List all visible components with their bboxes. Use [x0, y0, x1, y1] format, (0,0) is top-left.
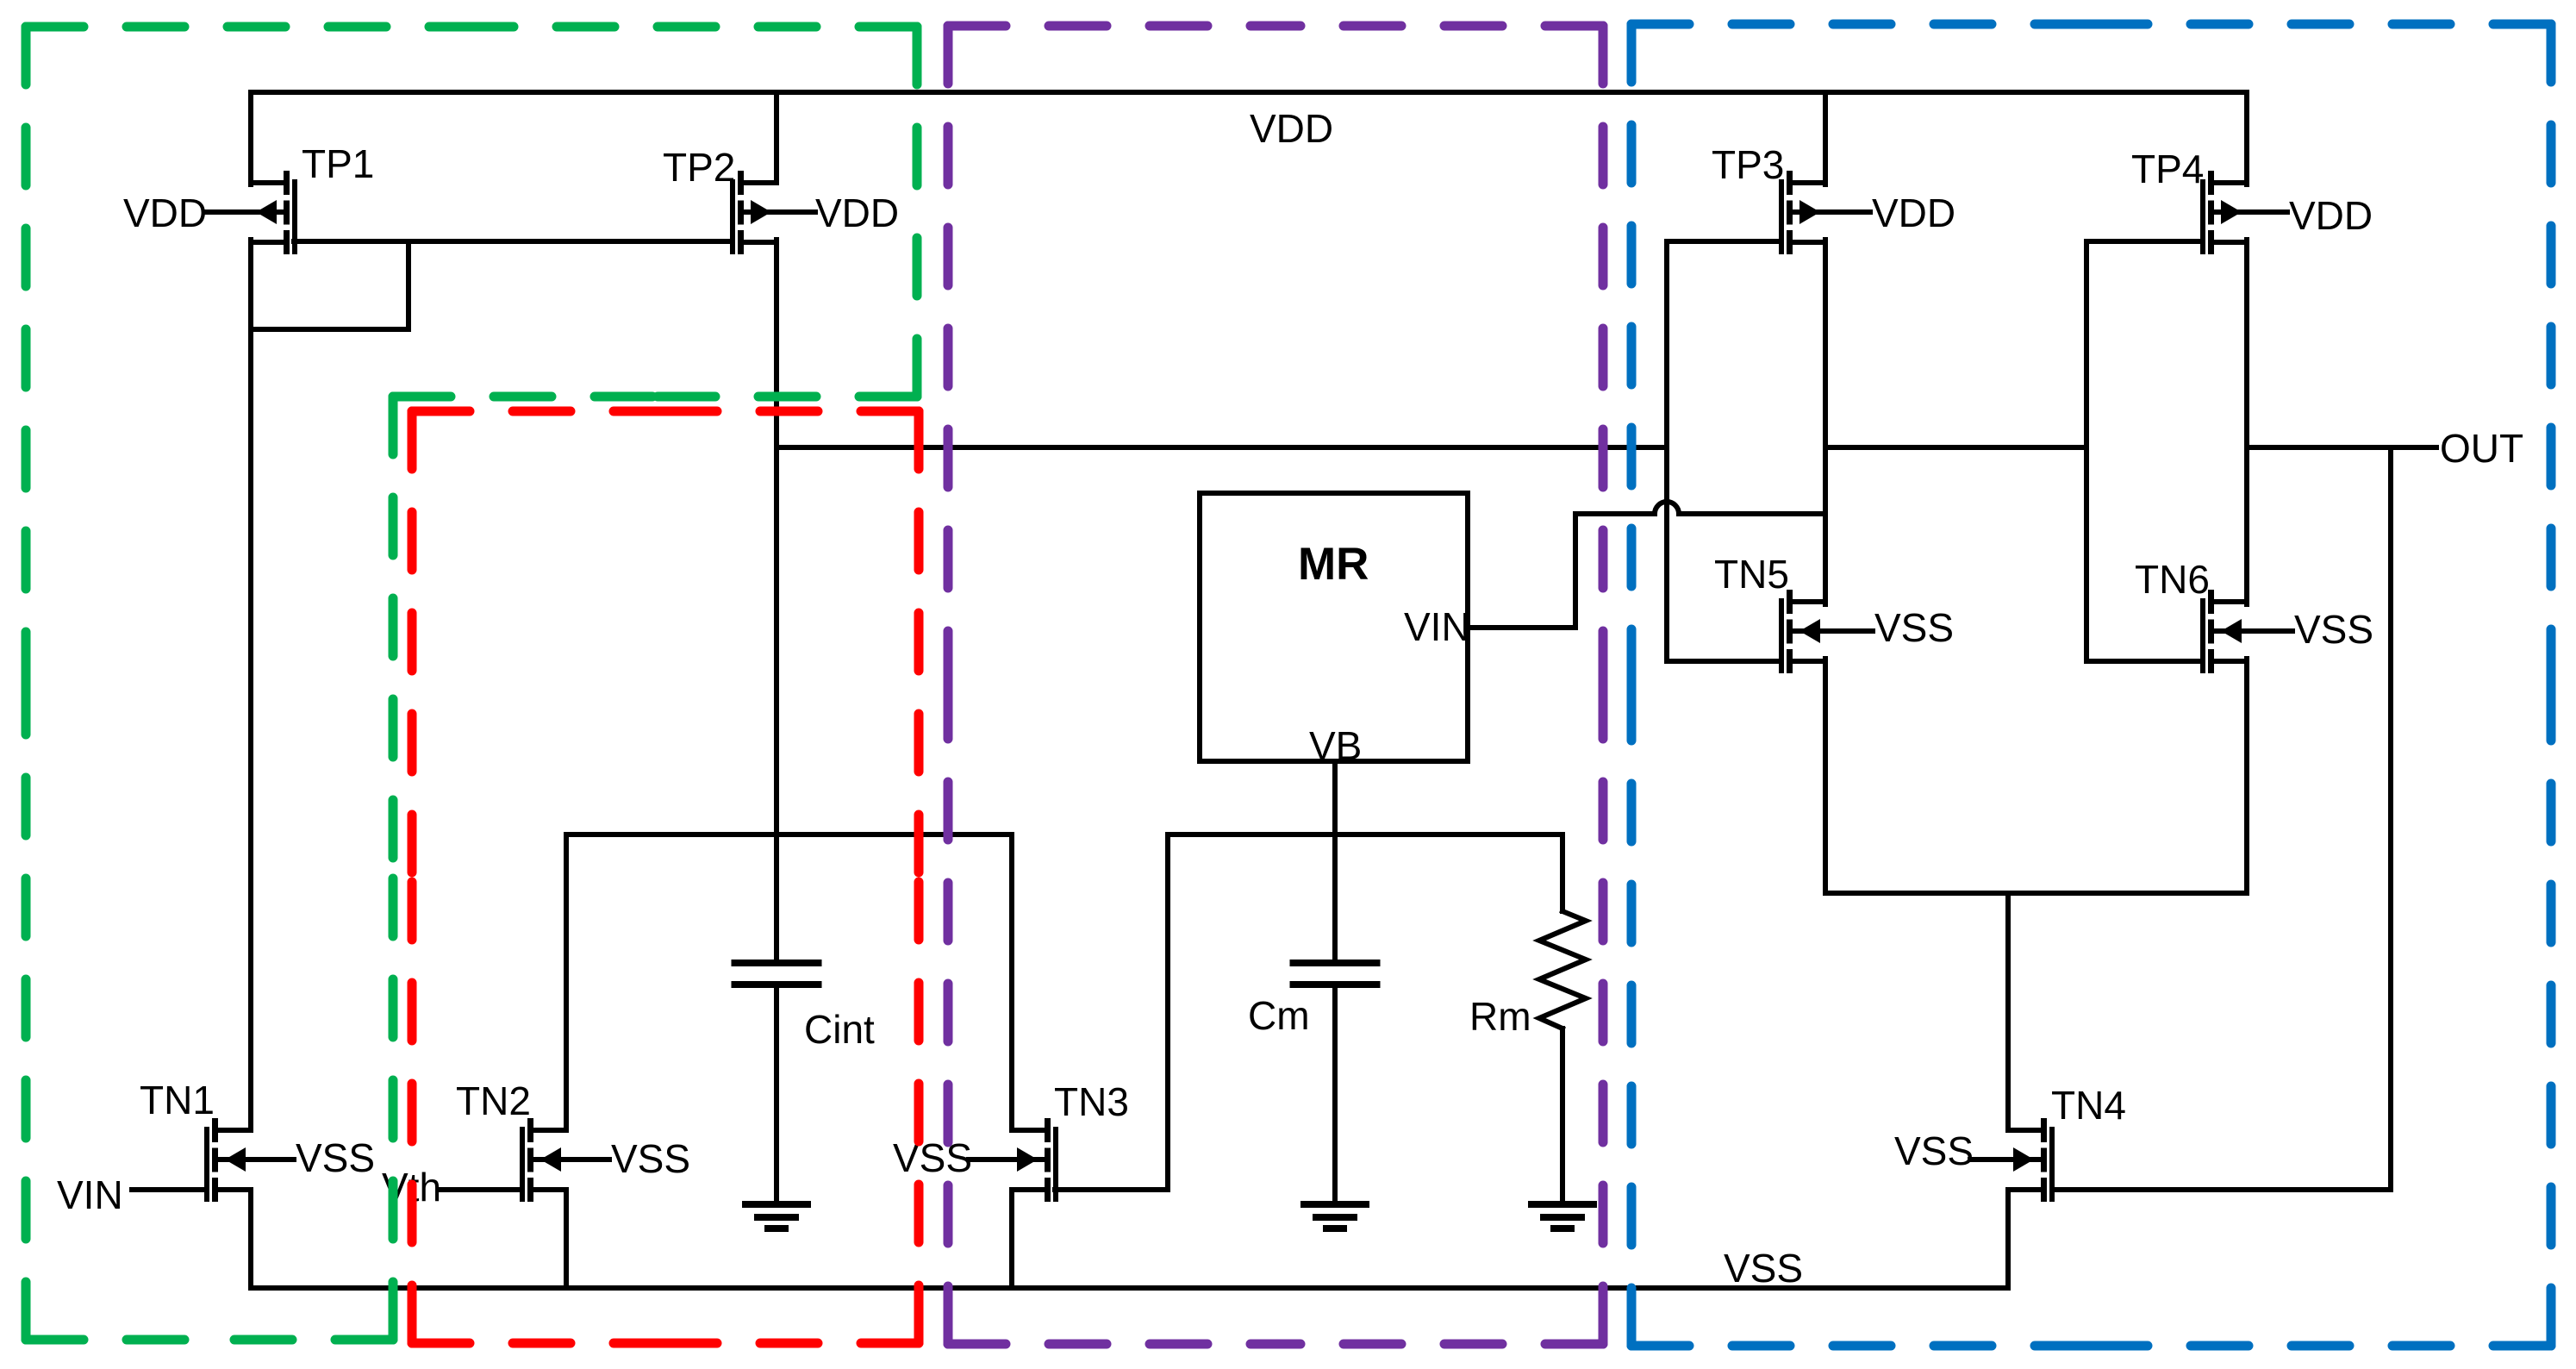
wire Cint to ground: [774, 988, 779, 1204]
svg-text:VSS: VSS: [1724, 1246, 1803, 1291]
wire TP1 diode loop riser: [406, 241, 411, 329]
svg-text:Cm: Cm: [1248, 993, 1310, 1038]
wire TN1 source to VSS rail: [248, 1190, 253, 1288]
wire Rm bottom lead: [1560, 1028, 1565, 1204]
ground under Cint: [742, 1201, 811, 1232]
svg-text:VSS: VSS: [611, 1136, 690, 1181]
wire TP1 bulk to VDD: [204, 209, 284, 215]
blue dashed box (output inverters region): [1631, 24, 2551, 1346]
wire TP1 source to rail: [248, 92, 253, 184]
wire TN5 bulk to VSS: [1793, 628, 1873, 634]
wire TN3 gate riser: [1165, 835, 1170, 1190]
resistor Rm: [1539, 911, 1586, 1028]
transistor TP4 (PMOS): [2200, 171, 2247, 254]
wire MR VIN to inverter1 output (right of hop): [1679, 511, 1825, 516]
wire TN4 bulk to VSS: [1970, 1157, 2041, 1162]
svg-text:VB: VB: [1309, 723, 1362, 768]
transistor TP2 (PMOS): [730, 171, 777, 254]
green dashed box (input stage / current mirror region): [26, 27, 917, 1340]
svg-text:TP2: TP2: [663, 145, 735, 190]
svg-text:VDD: VDD: [2289, 193, 2373, 238]
wire VSS bottom rail: [251, 1285, 2008, 1291]
svg-text:VSS: VSS: [296, 1135, 375, 1180]
wire inverter1 gate tie: [1664, 241, 1669, 661]
wire TP3 source to rail: [1823, 92, 1828, 184]
svg-text:TN6: TN6: [2135, 557, 2210, 602]
capacitor Cint: [732, 960, 822, 988]
wire Vth lead to TN2 gate: [441, 1187, 522, 1192]
red dashed box (integrator region): [412, 411, 919, 1343]
wire TN2 bulk to VSS: [533, 1157, 609, 1162]
transistor TN5 (NMOS): [1779, 590, 1825, 673]
purple dashed box (memristor network region): [948, 26, 1603, 1344]
wire gate rail TP1-TP2: [294, 239, 733, 244]
wire MR VB lead: [1332, 761, 1338, 960]
wire TP2 source to rail: [774, 92, 779, 183]
wire Rm top lead: [1560, 835, 1565, 911]
wire TN3 gate lead: [1055, 1187, 1168, 1192]
transistor TN6 (NMOS): [2200, 590, 2247, 673]
wire TP3-TN5 drain vertical: [1823, 240, 1828, 604]
svg-text:VSS: VSS: [1894, 1128, 1974, 1173]
svg-text:TP1: TP1: [302, 141, 374, 186]
wire TN6 source vertical: [2244, 659, 2249, 893]
wire TN3 bulk to VSS: [969, 1157, 1045, 1162]
transistor TN2 (NMOS): [520, 1118, 566, 1202]
wire TN4 gate lead: [2052, 1187, 2391, 1192]
transistor TN3 (NMOS): [1012, 1118, 1058, 1202]
transistor TN1 (NMOS): [204, 1118, 251, 1202]
wire OUT segment 3 (inverter2 out to OUT): [2247, 445, 2436, 450]
wire TP4-TN6 drain vertical: [2244, 240, 2249, 604]
wire TN6 bulk to VSS: [2214, 628, 2292, 634]
svg-text:TP4: TP4: [2131, 147, 2204, 191]
wire MR VIN riser: [1573, 514, 1578, 628]
wire MR VIN pin lead: [1468, 625, 1575, 630]
wire TN5 gate lead: [1667, 659, 1776, 664]
svg-text:Rm: Rm: [1469, 994, 1531, 1039]
svg-text:TP3: TP3: [1712, 142, 1784, 187]
wire TN4 source to VSS rail: [2005, 1190, 2011, 1288]
wire OUT feedback to TN4 gate: [2388, 447, 2393, 1190]
transistor TP3 (PMOS): [1779, 171, 1825, 254]
svg-text:Cint: Cint: [804, 1007, 875, 1052]
svg-text:MR: MR: [1298, 539, 1369, 590]
block MR (memristor model): [1200, 493, 1468, 761]
svg-text:TN3: TN3: [1054, 1079, 1129, 1124]
wire TP4 gate lead: [2086, 239, 2198, 244]
wire TP1 drain down to TN1 drain: [248, 240, 253, 1130]
wire TN2 source to VSS rail: [564, 1190, 569, 1288]
wire TP1 diode loop bottom: [251, 327, 409, 332]
wire OUT segment 2 (inverter1 out to inverter2 input): [1825, 445, 2086, 450]
svg-text:OUT: OUT: [2440, 426, 2523, 471]
transistor TN4 (NMOS): [2008, 1118, 2055, 1202]
capacitor Cm: [1290, 960, 1381, 988]
wire Cm to ground: [1332, 988, 1338, 1204]
svg-text:VIN: VIN: [57, 1172, 123, 1217]
wire TP3 gate lead: [1667, 239, 1776, 244]
wire TP2 drain down to Cint: [774, 240, 779, 960]
wire inverter source bus: [1825, 891, 2247, 896]
wire TP4 bulk to VDD: [2214, 209, 2287, 215]
ground under Cm: [1300, 1201, 1369, 1232]
wire integrator node line: [566, 832, 1012, 837]
wire TN5 source vertical: [1823, 659, 1828, 893]
svg-text:VDD: VDD: [815, 191, 899, 235]
svg-text:VDD: VDD: [1872, 191, 1955, 235]
transistor TP1 (PMOS): [251, 171, 297, 254]
svg-text:VSS: VSS: [1874, 605, 1954, 650]
svg-text:TN5: TN5: [1714, 552, 1789, 597]
svg-text:TN4: TN4: [2051, 1083, 2126, 1128]
wire TN3 source to VSS rail: [1009, 1190, 1014, 1288]
wire bus down to TN4 drain: [2005, 893, 2011, 1130]
svg-text:VDD: VDD: [1250, 106, 1333, 151]
wire TN6 gate lead: [2086, 659, 2198, 664]
wire TP3 bulk to VDD: [1793, 209, 1870, 215]
svg-text:VIN: VIN: [1404, 604, 1470, 649]
wire MR VIN to inverter1 output (left of hop): [1575, 511, 1655, 516]
svg-text:VDD: VDD: [123, 191, 207, 235]
wire TN1 bulk to VSS: [218, 1157, 294, 1162]
wire inverter2 gate tie: [2084, 241, 2089, 661]
wire TP2 bulk to VDD: [744, 209, 815, 215]
wire VDD top rail: [251, 90, 2247, 95]
svg-text:TN1: TN1: [140, 1078, 215, 1122]
svg-text:TN2: TN2: [456, 1078, 531, 1123]
wire hop (MR VIN wire jumps inverter1 gate tie): [1655, 502, 1679, 514]
svg-text:VSS: VSS: [893, 1135, 972, 1180]
svg-text:VSS: VSS: [2294, 607, 2373, 652]
wire TN3 drain vertical: [1009, 835, 1014, 1130]
wire TP4 source to rail: [2244, 92, 2249, 184]
ground under Rm: [1528, 1201, 1597, 1232]
wire OUT segment 1 (TP2 drain to inverter1 input): [777, 445, 1667, 450]
wire VB node line: [1168, 832, 1562, 837]
wire TN2 drain vertical: [564, 835, 569, 1130]
wire VIN lead to TN1 gate: [132, 1187, 207, 1192]
